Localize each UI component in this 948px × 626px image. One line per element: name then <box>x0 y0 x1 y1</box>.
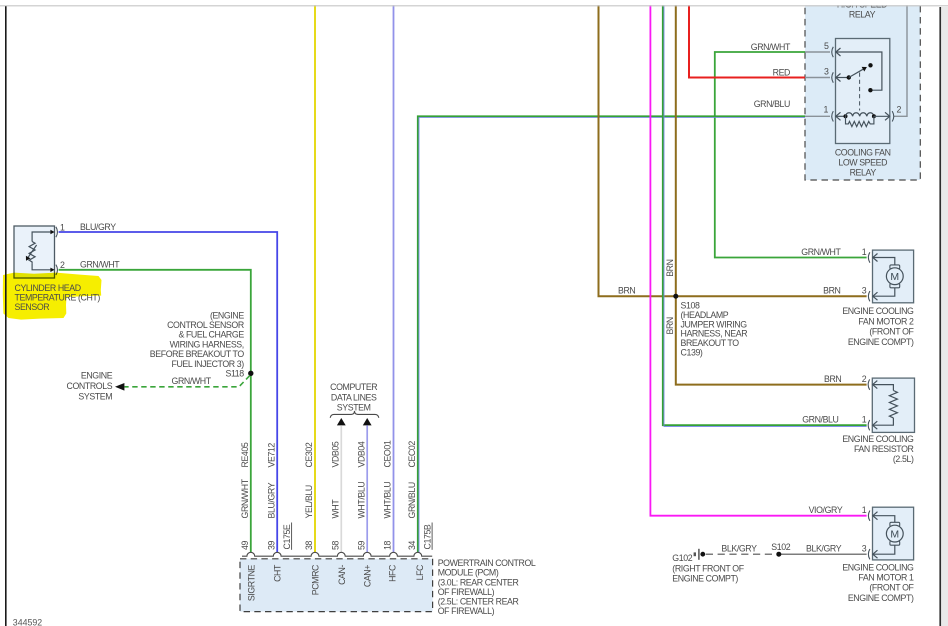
svg-text:C175E: C175E <box>282 524 292 549</box>
wire GRN/BLU PCM pin34 LFC to relay pin1 <box>418 116 805 552</box>
resistor pin1 connector paren <box>868 420 870 430</box>
motor1 internal wire pin3 <box>873 545 895 554</box>
sensor pin2 connector paren <box>56 265 58 275</box>
sensor internal wire to pin2 <box>32 263 51 269</box>
label BRN rotated above splice <box>665 259 675 276</box>
svg-text:(2.5L: CENTER REAR: (2.5L: CENTER REAR <box>438 597 519 607</box>
svg-text:M: M <box>890 528 899 540</box>
relay lower contact dot <box>868 88 872 92</box>
circuit id VDB05 <box>331 441 341 467</box>
svg-text:39: 39 <box>266 541 276 550</box>
svg-text:SIGRTNE: SIGRTNE <box>246 564 256 601</box>
splice S118 <box>248 371 253 376</box>
relay upper contact dot <box>868 63 872 67</box>
highlighter mark over sensor label <box>3 273 102 320</box>
wire WHT/BLU CAN+ to PCM pin59 <box>366 425 368 552</box>
wire BRN from S108 splice to motor2 pin3 <box>676 295 867 297</box>
svg-text:RELAY: RELAY <box>849 10 876 20</box>
svg-text:TEMPERATURE (CHT): TEMPERATURE (CHT) <box>15 293 101 303</box>
svg-text:(3.0L: REAR CENTER: (3.0L: REAR CENTER <box>438 577 519 587</box>
PCM pin name CAN- <box>337 565 347 585</box>
relay armature with arrow <box>849 69 864 78</box>
motor2 internal wire pin1 <box>873 258 895 266</box>
wire color GRN/BLU rotated <box>407 482 417 518</box>
svg-text:BRN: BRN <box>665 317 675 334</box>
svg-text:CEO01: CEO01 <box>383 440 393 467</box>
svg-text:BLK/GRY: BLK/GRY <box>721 544 757 554</box>
svg-text:FUEL INJECTOR 3): FUEL INJECTOR 3) <box>172 359 245 369</box>
svg-text:1: 1 <box>862 505 867 515</box>
motor1 pin3 chevron arrow <box>873 550 878 558</box>
svg-text:RELAY: RELAY <box>850 168 877 178</box>
svg-text:GRN/BLU: GRN/BLU <box>407 482 417 518</box>
wire BLK/GRY solid S102 to motor1 pin3 <box>779 553 867 555</box>
svg-text:WHT/BLU: WHT/BLU <box>356 482 366 519</box>
svg-text:ENGINE COMPT): ENGINE COMPT) <box>848 337 914 347</box>
motor1 M symbol <box>890 522 900 526</box>
svg-text:(RIGHT FRONT OF: (RIGHT FRONT OF <box>672 563 744 573</box>
resistor pin2 chevron arrow <box>873 381 878 389</box>
svg-text:2: 2 <box>897 105 902 115</box>
svg-text:58: 58 <box>331 541 341 550</box>
motor1 pin1 connector paren <box>868 511 870 521</box>
right page edge dark line <box>939 7 941 626</box>
svg-text:BEFORE BREAKOUT TO: BEFORE BREAKOUT TO <box>150 349 245 359</box>
svg-text:CEC02: CEC02 <box>407 441 417 468</box>
svg-text:GRN/BLU: GRN/BLU <box>754 99 790 109</box>
wire color WHT/BLU rotated <box>356 482 366 519</box>
svg-text:18: 18 <box>383 541 393 550</box>
svg-text:ENGINE COMPT): ENGINE COMPT) <box>848 593 914 603</box>
wire GRN/WHT sensor pin2 to S118 to PCM pin49 <box>59 270 251 553</box>
svg-text:SENSOR: SENSOR <box>15 302 50 312</box>
cooling fan low speed relay K1 box <box>836 39 890 144</box>
connector C175B rotated underlined <box>422 524 432 549</box>
PCM pin name CHT <box>273 564 283 582</box>
svg-text:GRN/WHT: GRN/WHT <box>801 247 841 257</box>
left page border line <box>5 6 7 626</box>
arrow to engine controls system <box>115 383 124 391</box>
circuit id CEO01 <box>383 440 393 467</box>
svg-text:(FRONT OF: (FRONT OF <box>869 327 914 337</box>
svg-text:BRN: BRN <box>824 374 841 384</box>
PCM connector rail with socket bumps <box>242 552 432 556</box>
svg-text:(2.5L): (2.5L) <box>893 454 914 464</box>
PCM pin name PCMRC <box>311 564 321 595</box>
wire YEL/BLU from top to PCM pin38 <box>314 0 316 552</box>
svg-text:BRN: BRN <box>618 286 635 296</box>
relay pin 5 gray stub <box>805 51 830 53</box>
svg-text:POWERTRAIN CONTROL: POWERTRAIN CONTROL <box>438 558 536 568</box>
svg-text:DATA LINES: DATA LINES <box>331 392 377 402</box>
svg-text:3: 3 <box>862 286 867 296</box>
engine cooling fan resistor box <box>872 378 914 432</box>
svg-text:G102: G102 <box>672 553 692 563</box>
svg-text:(ENGINE: (ENGINE <box>210 310 244 320</box>
svg-text:OF FIREWALL): OF FIREWALL) <box>438 587 495 597</box>
svg-text:34: 34 <box>407 541 417 550</box>
svg-text:YEL/BLU: YEL/BLU <box>304 485 314 518</box>
svg-text:BRN: BRN <box>823 286 840 296</box>
motor2 pin1 chevron arrow <box>873 254 878 262</box>
splice S108 <box>673 294 678 299</box>
pin number 49 <box>240 541 250 550</box>
wire GRN/WHT relay pin5 to motor2 pin1 (vertical run) <box>715 52 867 258</box>
svg-text:VE712: VE712 <box>266 443 276 468</box>
relay pin 2 chevron arrow <box>885 112 890 120</box>
resistor pin1 chevron arrow <box>873 421 878 429</box>
svg-text:LFC: LFC <box>415 564 425 580</box>
pin number 58 <box>331 541 341 550</box>
label BRN rotated below splice <box>665 317 675 334</box>
relay assembly dashed enclosure (cooling fan relays) <box>805 0 920 180</box>
top gray rule <box>0 5 948 7</box>
circuit id CEC02 <box>407 441 417 468</box>
sensor pin1 connector paren <box>56 227 58 237</box>
connector C175E rotated underlined <box>282 524 292 549</box>
svg-text:C139): C139) <box>681 348 703 358</box>
svg-text:ENGINE COOLING: ENGINE COOLING <box>842 434 914 444</box>
svg-text:M: M <box>890 271 899 283</box>
svg-text:MODULE (PCM): MODULE (PCM) <box>438 568 499 578</box>
relay coil parallel resistor <box>846 116 874 126</box>
wire color WHT/BLU rotated <box>383 482 393 519</box>
motor1 pin3 connector paren <box>868 549 870 559</box>
relay pin 1 connector paren <box>832 111 834 121</box>
relay pin 3 gray stub <box>805 77 830 79</box>
motor1 internal wire pin1 <box>873 516 895 523</box>
svg-text:RE405: RE405 <box>240 442 250 467</box>
pin number 34 <box>407 541 417 550</box>
svg-text:COMPUTER: COMPUTER <box>330 382 377 392</box>
relay pin 5 chevron arrow <box>836 48 841 56</box>
ground G102 symbol <box>694 552 696 556</box>
motor1 pin1 chevron arrow <box>873 512 878 520</box>
wire gray from high-speed relay down to low-speed relay pin 2 <box>894 0 907 116</box>
wire BLU/GRY sensor pin1 to PCM pin39 <box>59 232 278 552</box>
svg-text:3: 3 <box>824 66 829 76</box>
PCM pin name LFC <box>415 564 425 580</box>
svg-text:2: 2 <box>60 260 65 270</box>
resistor element zigzag <box>889 391 897 418</box>
svg-text:GRN/WHT: GRN/WHT <box>172 376 212 386</box>
wire color YEL/BLU rotated <box>304 485 314 518</box>
svg-text:FAN RESISTOR: FAN RESISTOR <box>854 444 914 454</box>
resistor internal wire pin1 <box>873 418 894 425</box>
svg-text:WIRING HARNESS,: WIRING HARNESS, <box>170 339 244 349</box>
motor2 pin1 connector paren <box>868 252 870 262</box>
pin number 39 <box>266 541 276 550</box>
svg-text:COOLING FAN: COOLING FAN <box>835 147 891 157</box>
svg-text:HFC: HFC <box>387 564 397 582</box>
svg-text:1: 1 <box>862 247 867 257</box>
circuit id VE712 <box>266 443 276 468</box>
wire WHT CAN- to PCM pin58 <box>340 425 342 552</box>
svg-text:SYSTEM: SYSTEM <box>78 391 112 401</box>
svg-text:OF FIREWALL): OF FIREWALL) <box>438 606 495 616</box>
motor2 M symbol <box>890 265 900 269</box>
right gray band <box>941 7 948 626</box>
wire color WHT rotated <box>331 499 341 519</box>
PCM pin name HFC <box>387 564 397 582</box>
svg-text:ENGINE: ENGINE <box>81 371 113 381</box>
svg-text:WHT/BLU: WHT/BLU <box>383 482 393 519</box>
wire GRN/BLU from top to fan resistor pin1 <box>663 0 867 425</box>
svg-text:& FUEL CHARGE: & FUEL CHARGE <box>178 330 244 340</box>
circuit id VDB04 <box>356 441 366 467</box>
relay pin 2 connector paren <box>892 111 894 121</box>
relay pin 3 connector paren <box>832 72 834 82</box>
wire color BLU/GRY rotated <box>266 482 276 518</box>
dashed wire GRN/WHT to engine controls system <box>125 376 250 387</box>
data line arrow CAN- <box>337 418 346 425</box>
wire WHT/BLU from top to PCM pin18 <box>393 0 395 552</box>
svg-text:VIO/GRY: VIO/GRY <box>809 505 843 515</box>
svg-text:344592: 344592 <box>13 618 42 626</box>
svg-text:GRN/WHT: GRN/WHT <box>80 260 120 270</box>
circuit id RE405 <box>240 442 250 467</box>
motor2 pin3 connector paren <box>868 291 870 301</box>
svg-text:(FRONT OF: (FRONT OF <box>869 583 914 593</box>
svg-text:GRN/WHT: GRN/WHT <box>240 478 250 518</box>
top white margin strip <box>0 0 948 5</box>
svg-text:1: 1 <box>60 222 65 232</box>
pin number 59 <box>356 541 366 550</box>
svg-text:VDB04: VDB04 <box>356 441 366 467</box>
wire color GRN/WHT rotated <box>240 478 250 518</box>
svg-text:SYSTEM: SYSTEM <box>337 402 371 412</box>
svg-text:3: 3 <box>862 544 867 554</box>
svg-text:BLU/GRY: BLU/GRY <box>80 222 116 232</box>
resistor internal wire pin2 <box>873 385 894 391</box>
powertrain control module dashed box <box>240 559 433 612</box>
svg-text:S118: S118 <box>226 369 245 379</box>
svg-text:CHT: CHT <box>273 564 283 582</box>
svg-text:PCMRC: PCMRC <box>311 564 321 595</box>
motor2 pin3 chevron arrow <box>873 292 878 300</box>
svg-text:38: 38 <box>304 541 314 550</box>
sensor thermistor arrow <box>28 245 36 257</box>
svg-text:59: 59 <box>356 541 366 550</box>
svg-text:LOW SPEED: LOW SPEED <box>838 158 887 168</box>
svg-text:CYLINDER HEAD: CYLINDER HEAD <box>15 283 81 293</box>
svg-text:BRN: BRN <box>665 259 675 276</box>
wire BLK/GRY dashed G102 to S102 <box>706 553 776 555</box>
engine cooling fan motor 1 box <box>873 507 914 560</box>
cylinder head temperature sensor box <box>14 226 55 278</box>
svg-text:C175B: C175B <box>422 524 432 549</box>
relay pin 1 chevron arrow <box>836 112 841 120</box>
svg-text:GRN/BLU: GRN/BLU <box>802 415 838 425</box>
sensor pin2 arrow <box>50 268 54 272</box>
svg-text:1: 1 <box>862 415 867 425</box>
motor2 internal wire pin3 <box>873 288 895 296</box>
svg-text:CAN+: CAN+ <box>363 565 373 587</box>
svg-text:CE302: CE302 <box>304 442 314 467</box>
svg-text:ENGINE COOLING: ENGINE COOLING <box>842 562 914 572</box>
sensor thermistor zigzag <box>29 242 35 264</box>
svg-text:GRN/WHT: GRN/WHT <box>751 42 791 52</box>
svg-text:BLU/GRY: BLU/GRY <box>266 482 276 518</box>
svg-text:1: 1 <box>824 105 829 115</box>
relay pin 5 connector paren <box>832 47 834 57</box>
relay pin 3 chevron arrow <box>836 74 841 82</box>
svg-text:FAN MOTOR 2: FAN MOTOR 2 <box>858 316 914 326</box>
svg-text:CONTROL SENSOR: CONTROL SENSOR <box>167 320 244 330</box>
sensor pin1 arrow <box>50 230 54 234</box>
svg-text:CONTROLS: CONTROLS <box>67 381 113 391</box>
svg-text:RED: RED <box>773 67 790 77</box>
data line arrow CAN+ <box>363 418 372 425</box>
svg-text:CAN-: CAN- <box>337 565 347 585</box>
pin number 18 <box>383 541 393 550</box>
relay mechanical link dashed <box>859 73 861 111</box>
svg-text:WHT: WHT <box>331 499 341 519</box>
svg-text:BLK/GRY: BLK/GRY <box>806 544 842 554</box>
wire BRN from top through S108 down to fan resistor pin2 <box>676 0 867 385</box>
pin number 38 <box>304 541 314 550</box>
relay coil with dots <box>836 115 846 117</box>
relay common wire and dot <box>836 77 849 79</box>
svg-text:VDB05: VDB05 <box>331 441 341 467</box>
relay pin 1 gray stub <box>805 115 830 117</box>
engine cooling fan motor 2 box <box>873 250 914 303</box>
wire VIO/GRY from top to motor1 pin1 <box>650 0 866 516</box>
splice S102 <box>776 552 781 557</box>
svg-text:5: 5 <box>824 41 829 51</box>
brace over data line arrows <box>330 411 379 418</box>
svg-text:2: 2 <box>862 374 867 384</box>
circuit id CE302 <box>304 442 314 467</box>
PCM pin name CAN+ <box>363 565 373 587</box>
svg-text:S102: S102 <box>771 542 790 552</box>
svg-text:49: 49 <box>240 541 250 550</box>
wire RED from top to relay pin3 <box>689 0 805 78</box>
svg-text:ENGINE COOLING: ENGINE COOLING <box>842 306 914 316</box>
svg-text:ENGINE COMPT): ENGINE COMPT) <box>672 574 738 584</box>
relay internal wire pin5 to lower contact <box>836 52 882 90</box>
sensor internal wire to pin1 <box>32 232 51 242</box>
svg-text:FAN MOTOR 1: FAN MOTOR 1 <box>858 573 914 583</box>
PCM pin name SIGRTNE <box>246 564 256 601</box>
resistor pin2 connector paren <box>868 379 870 389</box>
wire BRN from top to S108 splice <box>599 0 676 296</box>
